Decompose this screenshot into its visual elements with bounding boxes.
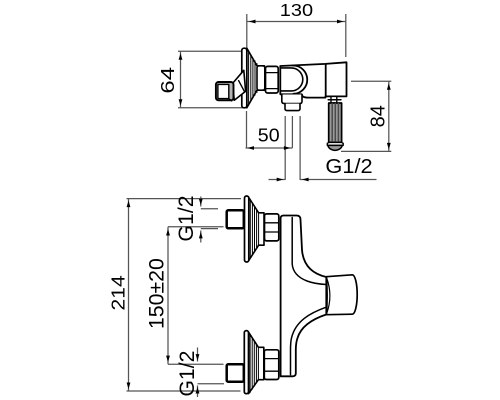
svg-text:150±20: 150±20 [145,258,169,329]
svg-text:130: 130 [280,0,313,20]
svg-text:G1/2: G1/2 [175,351,199,397]
svg-text:84: 84 [367,105,389,127]
svg-text:64: 64 [158,67,179,94]
svg-text:G1/2: G1/2 [325,156,372,178]
svg-text:214: 214 [109,275,130,310]
svg-text:50: 50 [258,126,280,146]
svg-text:G1/2: G1/2 [174,195,198,241]
